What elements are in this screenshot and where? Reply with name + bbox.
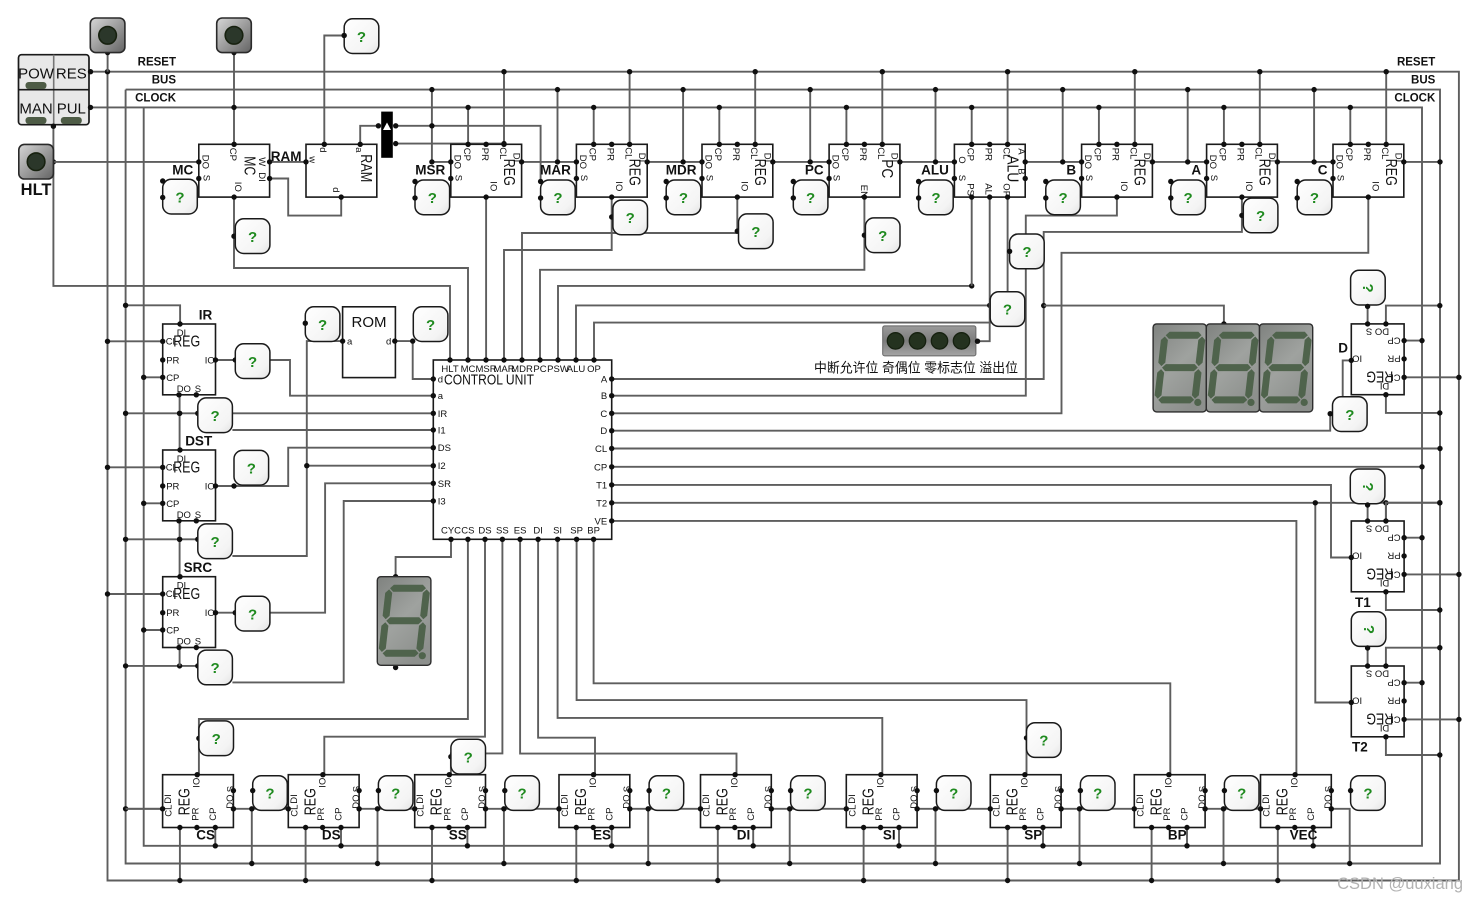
wire T1 taps (1368, 500, 1462, 613)
wire D run (612, 414, 1330, 431)
svg-text:CL: CL (1253, 147, 1264, 159)
wire button2 to MC CP (231, 50, 236, 144)
svg-text:?: ? (1237, 786, 1246, 803)
probe right of VEC (1348, 776, 1385, 811)
svg-text:CS: CS (461, 526, 474, 537)
svg-text:S: S (1335, 175, 1346, 181)
svg-text:PUL: PUL (57, 101, 86, 118)
svg-text:?: ? (175, 189, 184, 206)
wire VE run to VEC IO (612, 521, 1297, 775)
svg-text:?: ? (1310, 190, 1319, 207)
svg-text:SI: SI (883, 828, 896, 843)
svg-text:IO: IO (1352, 352, 1362, 363)
probe SP IO (1027, 723, 1062, 758)
wire MC DI to RAM d (270, 179, 342, 216)
wire SRC probe line (123, 663, 198, 668)
probe right of ES (646, 776, 683, 811)
svg-text:DI: DI (1380, 722, 1390, 733)
svg-text:DS: DS (322, 828, 341, 843)
svg-text:CP: CP (746, 807, 757, 820)
svg-text:PR: PR (587, 807, 598, 820)
svg-text:?: ? (211, 534, 220, 551)
svg-text:RAM: RAM (271, 149, 302, 164)
register MDR (699, 142, 775, 200)
svg-text:VEC: VEC (1290, 828, 1318, 843)
svg-text:DI: DI (415, 794, 426, 804)
svg-text:CL: CL (622, 147, 633, 159)
wire ES run (520, 539, 736, 774)
svg-text:d: d (317, 147, 328, 152)
svg-text:DO: DO (1323, 794, 1334, 808)
svg-text:S: S (226, 786, 237, 792)
svg-text:IO: IO (613, 181, 624, 191)
wire CU I1 line (232, 429, 433, 431)
svg-text:IO: IO (588, 778, 599, 788)
register SI (844, 772, 921, 830)
svg-text:SS: SS (496, 526, 509, 537)
wire ALU OP vertical (1007, 197, 1009, 323)
svg-text:BP: BP (1168, 828, 1187, 843)
control panel POW RES MAN PUL (18, 55, 93, 129)
svg-text:DST: DST (185, 434, 213, 449)
svg-text:RES: RES (56, 66, 87, 83)
probe left of MAR (538, 179, 575, 215)
probe MDR IO (739, 214, 774, 249)
svg-text:CP: CP (1306, 807, 1317, 820)
wire IR DST SRC CL taps (105, 339, 163, 597)
probe left of MDR (664, 179, 701, 215)
svg-text:?: ? (518, 786, 527, 803)
wire T2 run to T1 DO (1385, 503, 1387, 521)
svg-text:DI: DI (1261, 794, 1272, 804)
svg-text:S: S (704, 175, 715, 181)
svg-text:DO: DO (177, 637, 191, 648)
wire ROM d to CU d (395, 338, 434, 379)
svg-text:S: S (1208, 175, 1219, 181)
wire B run to B IO (612, 197, 1117, 396)
wire DST probe line (123, 537, 198, 542)
wire BUS ties top row (429, 87, 1317, 162)
svg-text:PR: PR (1235, 148, 1246, 161)
register CS (160, 772, 237, 830)
svg-text:PR: PR (1288, 807, 1299, 820)
svg-text:IO: IO (1290, 778, 1301, 788)
svg-text:D: D (600, 426, 607, 437)
wire SS run (448, 539, 502, 774)
svg-text:?: ? (1360, 625, 1377, 634)
push button RESET (90, 18, 125, 53)
push button CLOCK (217, 18, 252, 53)
svg-text:?: ? (211, 408, 220, 425)
wire SI run (558, 539, 883, 774)
svg-text:S: S (195, 384, 201, 395)
probe D IO (1328, 397, 1368, 432)
svg-text:CL: CL (1135, 805, 1146, 817)
svg-text:DI: DI (1393, 153, 1404, 163)
svg-text:PR: PR (728, 807, 739, 820)
register T2 (1349, 663, 1407, 739)
svg-text:ROM: ROM (352, 314, 387, 331)
svg-text:CL: CL (875, 147, 886, 159)
svg-text:CSDN @uuxiang: CSDN @uuxiang (1337, 875, 1463, 893)
register T1 (1349, 518, 1407, 594)
wire CP run (612, 464, 1425, 469)
svg-text:ALU: ALU (567, 364, 586, 375)
svg-text:CP: CP (604, 807, 615, 820)
register DST (160, 447, 218, 523)
svg-text:CL: CL (847, 805, 858, 817)
svg-text:PR: PR (1018, 807, 1029, 820)
probe PC EN (865, 218, 900, 253)
svg-text:DS: DS (478, 526, 491, 537)
probe D S (1351, 270, 1386, 309)
wire PC EN to CU (540, 197, 867, 360)
wire probe to RAM d (324, 33, 347, 145)
memory ROM (340, 307, 398, 378)
svg-text:?: ? (1345, 407, 1354, 424)
wire DI run (538, 539, 595, 774)
probe DST IO (234, 450, 269, 485)
wire display pin (1044, 306, 1227, 327)
probe T2 S (1351, 612, 1386, 651)
svg-text:PR: PR (442, 807, 453, 820)
svg-text:ALU: ALU (921, 163, 949, 178)
wire CP taps to CLOCK (465, 105, 1353, 145)
svg-text:CP: CP (460, 807, 471, 820)
svg-text:SR: SR (438, 479, 451, 490)
svg-text:?: ? (464, 749, 473, 766)
push button HLT (19, 144, 54, 199)
wire ALU PS vertical (971, 197, 973, 286)
svg-text:C: C (1318, 163, 1328, 178)
svg-text:CLOCK: CLOCK (1394, 92, 1436, 104)
svg-text:S: S (622, 786, 633, 792)
wire CLOCK bus ring (89, 107, 1422, 845)
svg-text:CL: CL (595, 444, 607, 455)
svg-text:CL: CL (1379, 147, 1390, 159)
svg-text:REG: REG (173, 586, 200, 603)
svg-text:DO: DO (1082, 155, 1093, 169)
svg-text:S: S (956, 175, 967, 181)
seven segment display digit 2 (1206, 324, 1259, 412)
wire CYC to 7seg (393, 539, 451, 579)
wire MAR IO to CU (504, 197, 614, 360)
svg-text:CL: CL (991, 805, 1002, 817)
svg-text:?: ? (626, 210, 635, 227)
svg-text:IO: IO (317, 778, 328, 788)
register DI (698, 772, 775, 830)
svg-text:S: S (200, 175, 211, 181)
svg-text:REG: REG (1382, 159, 1399, 186)
svg-text:DO: DO (225, 794, 236, 808)
svg-text:ES: ES (593, 828, 611, 843)
svg-text:?: ? (679, 190, 688, 207)
svg-text:?: ? (949, 786, 958, 803)
probe right of SI (934, 776, 971, 811)
wire D taps (1368, 303, 1462, 416)
svg-text:?: ? (265, 786, 274, 803)
memory controller MC (196, 142, 272, 200)
svg-text:REG: REG (1256, 159, 1273, 186)
svg-text:PR: PR (166, 356, 179, 367)
svg-text:?: ? (212, 731, 221, 748)
svg-text:DO: DO (1334, 155, 1345, 169)
probe left of ALU (916, 179, 953, 215)
svg-text:IO: IO (875, 778, 886, 788)
svg-text:?: ? (391, 786, 400, 803)
svg-text:PR: PR (730, 148, 741, 161)
svg-text:S: S (1197, 786, 1208, 792)
probe below IR (198, 398, 233, 433)
svg-text:DI: DI (1380, 577, 1390, 588)
svg-text:DI: DI (991, 794, 1002, 804)
svg-text:DS: DS (438, 443, 451, 454)
svg-text:S: S (452, 175, 463, 181)
svg-text:?: ? (1022, 244, 1031, 261)
svg-text:a: a (438, 391, 444, 402)
svg-text:DI: DI (256, 172, 267, 182)
svg-text:PR: PR (166, 482, 179, 493)
svg-text:PR: PR (1110, 148, 1121, 161)
svg-text:DO: DO (1053, 794, 1064, 808)
svg-text:IO: IO (487, 181, 498, 191)
svg-text:CYC: CYC (441, 526, 461, 537)
svg-text:CP: CP (892, 807, 903, 820)
wire D IO (1343, 360, 1352, 396)
register C (1330, 142, 1406, 200)
svg-text:DO: DO (351, 794, 362, 808)
svg-text:S: S (831, 175, 842, 181)
probe left of ROM (303, 307, 340, 342)
svg-text:DI: DI (737, 828, 751, 843)
svg-text:T2: T2 (596, 498, 607, 509)
svg-text:PSW: PSW (547, 364, 569, 375)
wire C run to C IO (612, 197, 1369, 413)
wire T2 IO feed (1313, 500, 1352, 702)
wire SRC probe line (195, 663, 232, 668)
svg-text:RESET: RESET (138, 57, 176, 69)
wire BUS ring (126, 90, 1440, 864)
svg-text:SP: SP (1024, 828, 1042, 843)
svg-text:DO: DO (703, 155, 714, 169)
svg-text:PR: PR (1387, 695, 1400, 706)
svg-text:D: D (1338, 341, 1348, 356)
svg-text:DO: DO (909, 794, 920, 808)
svg-text:AL: AL (982, 183, 993, 195)
svg-text:HLT: HLT (21, 181, 52, 199)
svg-text:?: ? (248, 606, 257, 623)
svg-text:IO: IO (730, 778, 741, 788)
wire CS run (196, 539, 468, 774)
probe ALU AL (990, 292, 1025, 327)
svg-text:S: S (764, 786, 775, 792)
register IR (160, 321, 218, 397)
wire CL run (612, 446, 1443, 451)
svg-text:CLOCK: CLOCK (135, 92, 177, 104)
probe SRC IO (235, 596, 270, 631)
svg-text:?: ? (751, 224, 760, 241)
svg-text:SI: SI (553, 526, 562, 537)
svg-text:BUS: BUS (1411, 75, 1436, 87)
svg-text:EN: EN (858, 185, 869, 198)
svg-text:?: ? (426, 317, 435, 334)
svg-text:PS: PS (964, 183, 975, 196)
svg-text:B: B (1015, 168, 1026, 174)
svg-text:I2: I2 (438, 461, 446, 472)
svg-text:PR: PR (982, 148, 993, 161)
svg-text:SRC: SRC (184, 560, 213, 575)
svg-text:PR: PR (1387, 352, 1400, 363)
svg-text:ES: ES (514, 526, 527, 537)
svg-text:SP: SP (570, 526, 583, 537)
svg-text:DO: DO (199, 155, 210, 169)
svg-text:REG: REG (173, 334, 200, 351)
svg-text:T2: T2 (1352, 740, 1368, 755)
svg-text:CP: CP (1387, 532, 1400, 543)
probe right of CS (250, 776, 287, 811)
svg-text:DI: DI (847, 794, 858, 804)
wire left column DO-DI chain (177, 395, 182, 666)
svg-text:IO: IO (205, 356, 215, 367)
svg-text:PR: PR (857, 148, 868, 161)
probe right of SS (502, 776, 539, 811)
wire bottom CP taps to CLOCK (213, 828, 1316, 849)
svg-text:?: ? (1003, 302, 1012, 319)
arithmetic logic unit ALU (952, 142, 1028, 200)
svg-text:DI: DI (701, 794, 712, 804)
register SS (412, 772, 489, 830)
svg-text:A: A (1191, 163, 1201, 178)
svg-text:PR: PR (190, 807, 201, 820)
svg-text:MDR: MDR (666, 163, 697, 178)
wire ALU AL vertical to LEDs (973, 197, 990, 344)
svg-text:CL: CL (748, 147, 759, 159)
svg-text:S: S (195, 637, 201, 648)
wire CL taps to RESET (501, 69, 1389, 144)
svg-text:PR: PR (1361, 148, 1372, 161)
svg-text:CP: CP (1387, 334, 1400, 345)
svg-text:S: S (195, 510, 201, 521)
svg-text:?: ? (1363, 786, 1372, 803)
svg-text:IR: IR (438, 409, 448, 420)
svg-text:S: S (478, 786, 489, 792)
seven segment display digit 3 (1260, 324, 1313, 412)
svg-text:?: ? (1359, 284, 1376, 293)
svg-text:CL: CL (702, 805, 713, 817)
wire data chain top row (429, 159, 1443, 164)
svg-text:IO: IO (739, 181, 750, 191)
svg-text:T1: T1 (596, 480, 607, 491)
probe left of B (1043, 179, 1080, 215)
probe A IO (1243, 198, 1278, 233)
svg-text:IO: IO (1019, 778, 1030, 788)
svg-text:IO: IO (192, 778, 203, 788)
tri-state buffer (376, 112, 399, 158)
wire bottom CL taps to RESET (177, 828, 1280, 884)
wire CU I2 line (232, 466, 433, 556)
svg-text:DI: DI (1135, 794, 1146, 804)
svg-text:?: ? (878, 228, 887, 245)
svg-text:PR: PR (479, 148, 490, 161)
svg-text:S: S (578, 175, 589, 181)
probe SS IO (451, 739, 486, 774)
register MAR (574, 142, 650, 200)
svg-text:DO S: DO S (1366, 325, 1389, 336)
wire ROM a down (304, 341, 343, 468)
probe right of ROM (413, 307, 448, 342)
wire MDR IO to CU (522, 197, 740, 360)
svg-text:DO: DO (177, 384, 191, 395)
svg-text:DO S: DO S (1366, 668, 1389, 679)
svg-text:d: d (330, 187, 341, 192)
svg-text:S: S (1324, 786, 1335, 792)
svg-text:B: B (1066, 163, 1076, 178)
wire buffer out upper (396, 123, 541, 180)
wire DST probe to CU I2 (195, 537, 232, 542)
probe B line (1007, 234, 1044, 269)
svg-text:CP: CP (166, 373, 179, 384)
svg-text:IO: IO (205, 608, 215, 619)
wire IR probe to CU IR (195, 411, 433, 416)
svg-text:DO: DO (622, 794, 633, 808)
svg-text:DO: DO (477, 794, 488, 808)
svg-text:DI: DI (533, 526, 543, 537)
svg-text:PR: PR (166, 608, 179, 619)
probe left of PC (791, 179, 828, 215)
svg-text:IR: IR (199, 308, 213, 323)
svg-text:REG: REG (1131, 159, 1148, 186)
svg-text:?: ? (248, 354, 257, 371)
register D (1349, 321, 1407, 397)
wire T2 run (612, 500, 1443, 505)
svg-text:DI: DI (289, 794, 300, 804)
wire 7seg bottom stub (393, 665, 398, 670)
svg-text:a: a (347, 337, 353, 348)
wire IR IO to CU a (216, 357, 434, 395)
wire buffer out lower (396, 141, 507, 146)
svg-text:DO S: DO S (1366, 523, 1389, 534)
svg-text:MC: MC (172, 163, 193, 178)
svg-text:IO: IO (205, 482, 215, 493)
wire SRC IO to CU SR (216, 483, 434, 615)
wire CU I3 line (232, 501, 433, 682)
svg-text:PR: PR (1162, 807, 1173, 820)
svg-text:DI: DI (636, 153, 647, 163)
svg-text:d: d (438, 375, 443, 386)
probe below SRC (198, 650, 233, 685)
svg-text:DO: DO (451, 155, 462, 169)
svg-text:SS: SS (449, 828, 467, 843)
probe T1 S (1350, 469, 1385, 508)
wire DS run (324, 539, 485, 774)
svg-text:IO: IO (1243, 181, 1254, 191)
svg-text:?: ? (553, 190, 562, 207)
wire BP run (594, 539, 1171, 774)
svg-text:IO: IO (1370, 181, 1381, 191)
svg-text:DO: DO (177, 510, 191, 521)
svg-text:DI: DI (163, 794, 174, 804)
svg-text:REG: REG (500, 159, 517, 186)
svg-text:CP: CP (166, 626, 179, 637)
svg-text:IO: IO (1352, 695, 1362, 706)
register SP (988, 772, 1065, 830)
svg-text:PC: PC (805, 163, 824, 178)
wire SP run (577, 539, 1030, 774)
svg-text:BUS: BUS (152, 75, 177, 87)
probe right of DS (376, 776, 413, 811)
svg-text:?: ? (318, 317, 327, 334)
svg-text:IO: IO (1352, 550, 1362, 561)
